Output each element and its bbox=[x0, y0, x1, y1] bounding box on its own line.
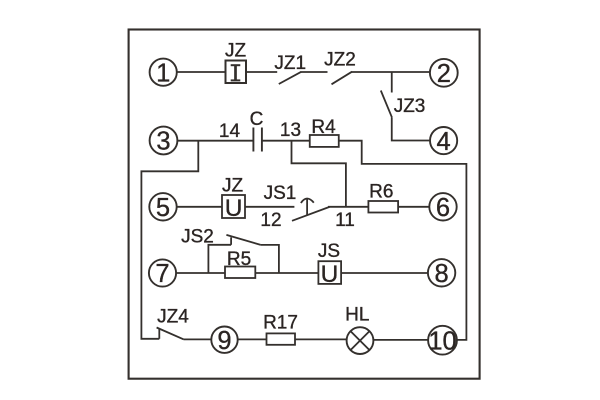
wire bbox=[295, 338, 347, 340]
contact JZ1 bbox=[279, 72, 328, 84]
terminal 7 bbox=[149, 259, 176, 286]
svg-text:R17: R17 bbox=[263, 313, 298, 334]
wire bbox=[398, 206, 430, 208]
lamp HL bbox=[347, 327, 374, 354]
wire bbox=[238, 338, 267, 340]
svg-text:JZ: JZ bbox=[222, 176, 244, 197]
wire bbox=[391, 72, 393, 93]
wire bbox=[177, 140, 254, 142]
terminal 10 bbox=[428, 326, 457, 355]
svg-text:JS1: JS1 bbox=[264, 183, 297, 204]
svg-text:12: 12 bbox=[260, 210, 281, 231]
svg-text:JZ2: JZ2 bbox=[324, 50, 356, 71]
svg-text:JS2: JS2 bbox=[181, 227, 214, 248]
wire bbox=[339, 141, 467, 340]
svg-text:4: 4 bbox=[437, 128, 451, 156]
wire bbox=[341, 272, 428, 274]
wire bbox=[245, 206, 294, 208]
svg-text:JS: JS bbox=[318, 241, 340, 262]
terminal 6 bbox=[429, 193, 456, 220]
contact JZ4 bbox=[157, 328, 184, 340]
svg-text:U: U bbox=[225, 195, 243, 222]
relay coil JZ (current element I) bbox=[226, 61, 247, 84]
svg-text:10: 10 bbox=[428, 328, 456, 356]
wire bbox=[392, 117, 430, 140]
resistor R4 bbox=[310, 135, 339, 147]
contact JS2 bypass branch bbox=[208, 235, 279, 273]
wire bbox=[176, 71, 226, 73]
wire bbox=[256, 272, 319, 274]
svg-text:6: 6 bbox=[436, 194, 450, 222]
terminal 9 bbox=[211, 327, 237, 353]
svg-text:8: 8 bbox=[435, 260, 449, 288]
svg-text:C: C bbox=[250, 109, 264, 130]
svg-text:U: U bbox=[321, 261, 339, 288]
wire bbox=[352, 71, 431, 73]
svg-text:JZ4: JZ4 bbox=[157, 307, 189, 328]
svg-text:3: 3 bbox=[156, 128, 170, 156]
wire bbox=[246, 71, 278, 73]
wire left rail bbox=[141, 141, 198, 339]
resistor R17 bbox=[267, 333, 296, 344]
svg-text:R5: R5 bbox=[227, 249, 251, 270]
svg-text:JZ3: JZ3 bbox=[394, 96, 426, 117]
wire bbox=[373, 339, 428, 341]
svg-text:R6: R6 bbox=[369, 182, 393, 203]
resistor R5 bbox=[225, 267, 255, 279]
time relay coil JS (U) bbox=[318, 261, 341, 288]
svg-text:1: 1 bbox=[156, 59, 170, 87]
contact JZ2 bbox=[332, 72, 353, 85]
svg-text:11: 11 bbox=[335, 210, 355, 231]
svg-text:14: 14 bbox=[219, 121, 241, 142]
wire bbox=[184, 338, 212, 340]
wire bbox=[176, 206, 222, 208]
svg-text:9: 9 bbox=[217, 327, 231, 355]
wire bbox=[262, 140, 310, 142]
svg-text:7: 7 bbox=[155, 260, 169, 288]
terminal 4 bbox=[430, 127, 457, 154]
resistor R6 bbox=[368, 201, 398, 213]
svg-text:JZ: JZ bbox=[225, 41, 247, 62]
terminal 8 bbox=[428, 259, 455, 286]
terminal 1 bbox=[150, 59, 177, 86]
svg-text:2: 2 bbox=[437, 60, 451, 88]
contact JZ3 bbox=[381, 91, 392, 118]
relay coil JZ (voltage element U) bbox=[222, 195, 245, 222]
wire bbox=[328, 206, 368, 208]
svg-text:13: 13 bbox=[280, 120, 301, 141]
terminal 3 bbox=[150, 127, 178, 155]
terminal 2 bbox=[430, 59, 458, 87]
wire bbox=[176, 272, 225, 274]
svg-text:HL: HL bbox=[345, 305, 369, 326]
svg-text:JZ1: JZ1 bbox=[274, 53, 306, 74]
wire node 13 drop bbox=[292, 141, 346, 207]
svg-text:5: 5 bbox=[156, 194, 170, 222]
svg-text:R4: R4 bbox=[311, 117, 336, 138]
terminal 5 bbox=[149, 193, 176, 220]
contact JS1 (delayed) bbox=[292, 199, 330, 221]
capacitor C bbox=[253, 128, 262, 152]
